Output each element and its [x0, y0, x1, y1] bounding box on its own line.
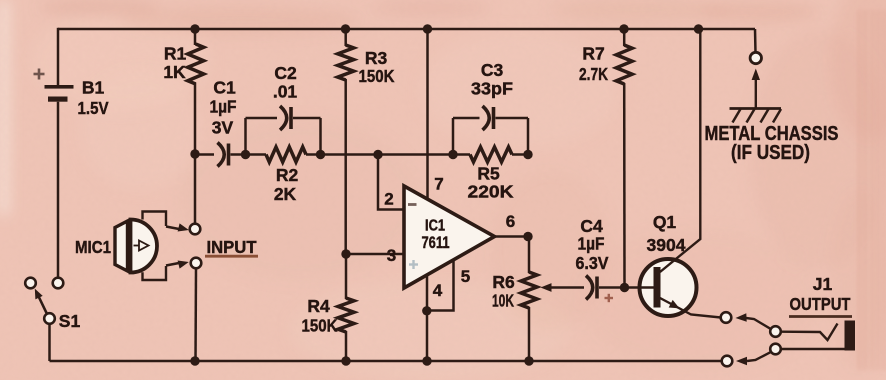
svg-text:5: 5	[461, 267, 470, 286]
svg-text:C1: C1	[213, 78, 236, 98]
svg-text:MIC1: MIC1	[75, 237, 111, 257]
svg-text:B1: B1	[82, 78, 105, 98]
svg-text:7: 7	[434, 175, 443, 194]
svg-text:R5: R5	[477, 164, 500, 184]
svg-text:2: 2	[384, 190, 393, 209]
svg-text:150K: 150K	[302, 316, 338, 336]
svg-text:J1: J1	[813, 274, 833, 294]
svg-text:R4: R4	[307, 296, 330, 316]
svg-text:C3: C3	[481, 60, 504, 80]
svg-text:R7: R7	[582, 44, 604, 64]
svg-text:R6: R6	[492, 272, 515, 292]
svg-text:1.5V: 1.5V	[78, 98, 109, 118]
svg-text:OUTPUT: OUTPUT	[790, 294, 851, 314]
svg-text:1K: 1K	[163, 62, 186, 82]
svg-text:1µF: 1µF	[210, 97, 237, 117]
svg-text:2.7K: 2.7K	[579, 64, 608, 84]
svg-text:INPUT: INPUT	[207, 237, 257, 257]
svg-text:3: 3	[387, 246, 396, 265]
svg-text:R3: R3	[365, 48, 388, 68]
svg-text:IC1: IC1	[425, 218, 445, 235]
svg-text:220K: 220K	[468, 182, 514, 202]
svg-text:(IF USED): (IF USED)	[731, 142, 810, 164]
svg-text:33pF: 33pF	[471, 79, 513, 99]
svg-text:R2: R2	[276, 165, 299, 185]
svg-text:Q1: Q1	[653, 212, 677, 232]
svg-text:1µF: 1µF	[578, 234, 605, 254]
svg-text:6.3V: 6.3V	[576, 253, 609, 273]
svg-text:2K: 2K	[274, 184, 297, 204]
svg-text:6: 6	[506, 212, 515, 231]
svg-text:7611: 7611	[422, 234, 450, 252]
svg-text:3904: 3904	[647, 235, 686, 255]
svg-text:S1: S1	[59, 311, 81, 331]
svg-text:4: 4	[433, 281, 443, 300]
svg-text:150K: 150K	[359, 66, 395, 86]
svg-text:.01: .01	[273, 82, 298, 102]
svg-text:10K: 10K	[492, 291, 514, 311]
svg-text:C2: C2	[274, 63, 297, 83]
svg-text:R1: R1	[164, 44, 187, 64]
svg-text:3V: 3V	[212, 118, 234, 138]
